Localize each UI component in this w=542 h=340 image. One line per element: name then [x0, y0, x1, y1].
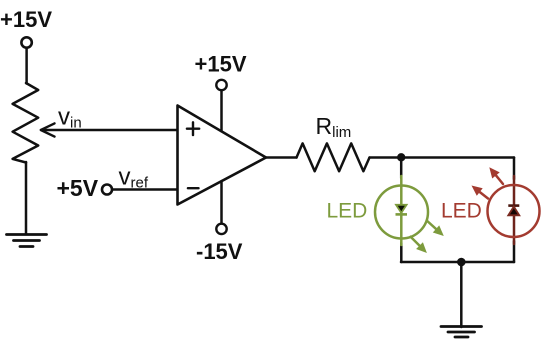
svg-text:LED: LED: [327, 200, 368, 223]
svg-text:vref: vref: [119, 164, 149, 192]
svg-text:+5V: +5V: [57, 175, 99, 201]
svg-text:vin: vin: [58, 104, 82, 132]
svg-text:-15V: -15V: [196, 239, 243, 264]
svg-text:Rlim: Rlim: [316, 113, 352, 141]
svg-text:+15V: +15V: [195, 52, 247, 77]
svg-text:LED: LED: [441, 200, 482, 223]
svg-text:+15V: +15V: [0, 7, 52, 32]
